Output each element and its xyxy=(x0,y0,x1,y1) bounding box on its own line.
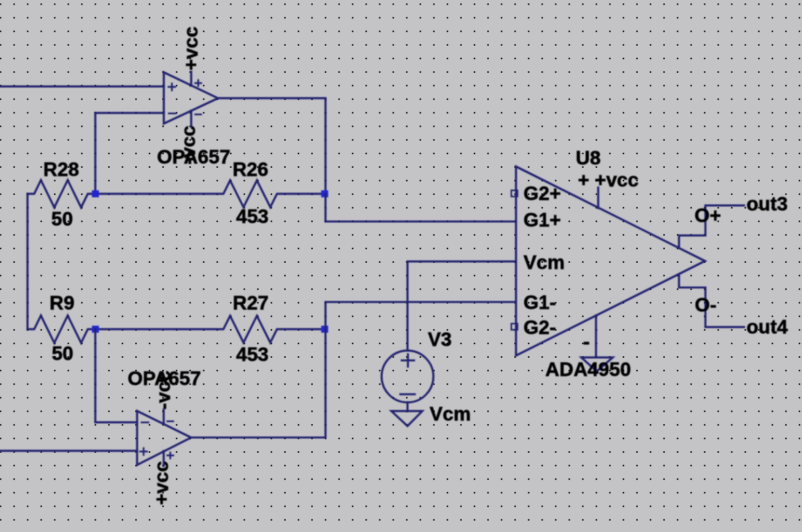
svg-text:Vcm: Vcm xyxy=(524,252,565,274)
svg-text:G1-: G1- xyxy=(524,292,557,314)
supply - marker xyxy=(584,342,590,345)
svg-text:453: 453 xyxy=(236,344,269,366)
supply pin line +vcc xyxy=(597,188,599,209)
svg-text:OPA657: OPA657 xyxy=(157,146,230,168)
svg-text:G1+: G1+ xyxy=(524,210,561,232)
voltage source V3 xyxy=(382,351,434,403)
pin square G2+ xyxy=(511,190,517,196)
ground (ADA4950) xyxy=(581,357,613,371)
svg-text:O-: O- xyxy=(695,295,717,317)
resistor R28 xyxy=(28,180,96,207)
op-amp U_top OPA657 xyxy=(164,72,218,127)
op-amp U_bottom OPA657 xyxy=(137,410,191,467)
wire V3 bottom stub xyxy=(406,402,408,411)
supply pin +vcc line (bottom) xyxy=(163,451,165,466)
wire output O- stub xyxy=(679,274,744,327)
supply + marker xyxy=(194,79,202,87)
resistor R27 xyxy=(95,316,324,343)
svg-text:U8: U8 xyxy=(576,148,601,170)
supply - marker xyxy=(194,113,202,115)
svg-text:out3: out3 xyxy=(747,194,788,216)
resistor R26 xyxy=(95,180,324,207)
supply pin +vcc line (top) xyxy=(190,72,192,86)
amplifier U8 ADA4950 xyxy=(516,167,705,356)
supply - marker xyxy=(167,420,175,422)
svg-text:R28: R28 xyxy=(43,159,79,181)
svg-text:G2-: G2- xyxy=(524,317,557,339)
V3 + marker xyxy=(401,353,415,367)
svg-text:out4: out4 xyxy=(747,317,788,339)
svg-text:V3: V3 xyxy=(428,329,452,351)
wire bottom op-amp output to node J4 xyxy=(191,329,325,437)
supply + marker xyxy=(167,452,175,460)
svg-text:R9: R9 xyxy=(50,293,75,315)
junction J1 xyxy=(92,190,99,197)
svg-text:O+: O+ xyxy=(695,205,722,227)
svg-text:ADA4950: ADA4950 xyxy=(545,359,631,381)
svg-text:R27: R27 xyxy=(233,293,269,315)
supply pin -vcc line (bottom) xyxy=(190,111,192,127)
input - marker xyxy=(168,112,177,114)
input - marker xyxy=(141,421,150,423)
junction J3 xyxy=(321,190,328,197)
svg-text:50: 50 xyxy=(51,209,73,231)
wire top op-amp +input from screen left xyxy=(0,85,164,87)
supply pin line to ground xyxy=(595,316,597,358)
input + marker xyxy=(168,83,177,92)
wire left vertical bus xyxy=(26,194,28,329)
supply pin -vcc line (top) xyxy=(163,410,165,424)
junction J2 xyxy=(92,326,99,333)
svg-text:R26: R26 xyxy=(233,159,269,181)
wire V3 top to Vcm pin xyxy=(408,261,517,350)
svg-text:OPA657: OPA657 xyxy=(128,368,201,390)
svg-text:Vcm: Vcm xyxy=(430,404,471,426)
junction J4 xyxy=(321,326,328,333)
svg-text:+vcc: +vcc xyxy=(180,26,202,70)
resistor R9 xyxy=(28,316,96,343)
svg-text:G2+: G2+ xyxy=(524,183,561,205)
input + marker xyxy=(139,447,148,456)
pin square G2- xyxy=(511,324,517,330)
wire bottom op-amp +input from screen left xyxy=(0,450,137,452)
wire top op-amp -input xyxy=(95,113,164,194)
svg-text:453: 453 xyxy=(236,206,269,228)
svg-text:50: 50 xyxy=(52,343,74,365)
wire J2 to bottom op-amp -input xyxy=(95,329,137,422)
wire node J4 to G1- xyxy=(326,302,517,329)
wire node J3 to G1+ xyxy=(326,194,517,222)
svg-text:+vcc: +vcc xyxy=(151,461,173,505)
wire output O+ stub xyxy=(679,205,744,248)
V3 - marker xyxy=(399,393,416,395)
ground (V3) xyxy=(391,411,422,426)
wire top op-amp output to node xyxy=(218,98,326,194)
svg-text:+ +vcc: + +vcc xyxy=(578,170,639,192)
